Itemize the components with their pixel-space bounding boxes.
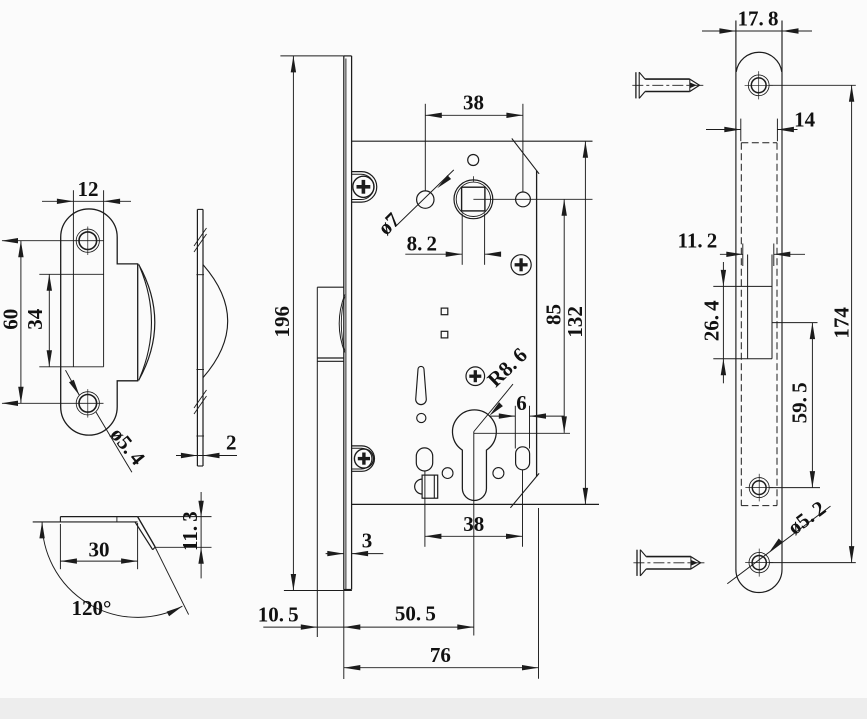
svg-text:38: 38 bbox=[463, 512, 484, 536]
side profile break marks lower bbox=[194, 396, 207, 414]
svg-text:38: 38 bbox=[463, 91, 484, 115]
dimension 11.2 ext left bbox=[742, 244, 744, 267]
faceplate boss top inner bbox=[352, 174, 374, 199]
strike plate cutout bottom edge bbox=[39, 366, 103, 368]
faceplate right edge bbox=[351, 56, 353, 590]
small circle left bbox=[442, 468, 453, 479]
dimension 76 ext right bbox=[538, 508, 540, 679]
lock case right edge bbox=[536, 171, 538, 477]
extension line through bottom hole bbox=[2, 402, 104, 404]
mounting screw bottom bbox=[636, 550, 638, 576]
strike plate latch bump outer arc bbox=[139, 264, 155, 380]
faceplate left edge bbox=[343, 56, 345, 590]
strike plate outline (left view) bbox=[61, 209, 138, 435]
strike plate cutout right edge + extension bbox=[103, 190, 105, 366]
dimension 10.5 and 50.5 line bbox=[263, 626, 474, 628]
recess dashed left bbox=[740, 143, 742, 506]
faceplate boss bottom outer bbox=[352, 446, 375, 471]
faceplate boss bottom inner bbox=[352, 448, 372, 469]
deadbolt top edge bbox=[317, 360, 344, 362]
strike box center extension bbox=[772, 322, 818, 324]
svg-text:11. 2: 11. 2 bbox=[678, 229, 718, 253]
dimension 14 ext left bbox=[740, 119, 742, 142]
svg-text:6: 6 bbox=[516, 391, 527, 415]
svg-text:85: 85 bbox=[542, 304, 566, 325]
dimension 11.2 line bbox=[720, 253, 743, 255]
strike plate cutout top edge bbox=[39, 273, 103, 275]
spindle center tick bbox=[472, 176, 474, 181]
hole right of spindle bbox=[516, 192, 531, 207]
lock case top chamfer bbox=[512, 138, 539, 173]
lip bar left cap bbox=[59, 517, 61, 522]
dimension 6 line bbox=[489, 415, 515, 417]
channel solid right bbox=[771, 255, 773, 359]
diameter 5.4 leader bbox=[66, 370, 80, 395]
lock case bottom edge + extension bbox=[352, 503, 599, 505]
dimension 196 ext top bbox=[280, 55, 343, 57]
mounting screw top bbox=[635, 72, 637, 98]
strike box top edge + extension bbox=[713, 285, 772, 287]
dimension 6 ext right bbox=[529, 406, 531, 449]
small circle below slot bbox=[417, 413, 426, 422]
dimension 59.5 line bbox=[811, 323, 813, 488]
lip flap extension line bbox=[155, 547, 188, 614]
svg-text:30: 30 bbox=[89, 537, 110, 561]
lip bar bottom edge + reference bbox=[33, 521, 138, 523]
dimension 11.3 line bbox=[200, 492, 202, 578]
svg-text:50. 5: 50. 5 bbox=[395, 602, 436, 626]
fixing slot right bbox=[516, 447, 530, 470]
dimension 38 bottom line bbox=[425, 535, 523, 537]
dimension 30 line bbox=[60, 560, 137, 562]
faceplate inner edge bbox=[345, 59, 347, 590]
side profile tick bottom bbox=[196, 435, 204, 437]
dimension 38 top ext left bbox=[424, 104, 426, 191]
svg-text:3: 3 bbox=[362, 529, 373, 553]
latch bolt top edge bbox=[317, 286, 344, 288]
svg-text:2: 2 bbox=[226, 430, 237, 454]
svg-text:60: 60 bbox=[0, 309, 23, 330]
svg-text:26. 4: 26. 4 bbox=[699, 300, 723, 341]
lock case bottom chamfer bbox=[510, 473, 539, 507]
latch bolt bottom edge bbox=[317, 357, 344, 359]
square hole lower bbox=[441, 331, 448, 338]
side profile bump arc bbox=[203, 265, 228, 378]
dimension 8.2 ext right bbox=[484, 214, 486, 265]
recess dashed right bbox=[776, 143, 778, 506]
side profile top cap bbox=[197, 208, 203, 210]
svg-text:11. 3: 11. 3 bbox=[178, 511, 202, 551]
svg-text:34: 34 bbox=[23, 308, 47, 330]
phillips screw upper-right bbox=[511, 255, 531, 275]
svg-text:59. 5: 59. 5 bbox=[787, 382, 811, 423]
svg-text:76: 76 bbox=[430, 643, 451, 667]
side profile tick lower bbox=[196, 369, 204, 371]
side profile break marks upper bbox=[194, 234, 207, 252]
dimension 30 extension left bbox=[59, 524, 61, 569]
extension line bottom hole to 174 bbox=[769, 562, 855, 564]
dimension 38 top ext right bbox=[522, 104, 524, 192]
lip flap inner edge bbox=[135, 522, 153, 550]
faceplate bottom cap bbox=[344, 589, 352, 591]
faceplate left extension down bbox=[343, 590, 345, 680]
radius 8.6 leader bbox=[474, 384, 513, 431]
faceplate boss bottom screw bbox=[354, 449, 373, 468]
side profile left edge bbox=[196, 209, 198, 466]
faceplate boss top outer bbox=[352, 172, 377, 203]
strike box bottom edge + extension bbox=[713, 358, 772, 360]
dimension 11.2 ext right bbox=[773, 244, 775, 267]
latch bevel outer arc bbox=[339, 295, 345, 353]
dimension 12 line bbox=[42, 200, 131, 202]
side profile right edge bbox=[202, 209, 204, 466]
lip flap end cap bbox=[153, 547, 156, 550]
hole diameter 7 bbox=[417, 191, 434, 208]
dimension 196 line bbox=[292, 56, 294, 591]
lock case top edge + extension bbox=[352, 140, 593, 142]
extension for 11.3 bottom bbox=[155, 546, 211, 548]
euro cylinder hole bbox=[453, 410, 497, 501]
long plate top arc bbox=[736, 52, 782, 72]
pilot circle top bbox=[468, 155, 479, 166]
phillips screw middle bbox=[466, 367, 485, 386]
lip bar inner tick bbox=[116, 517, 118, 522]
angle 120 arc bbox=[42, 522, 182, 617]
screw hole bottom (left view) bbox=[79, 395, 97, 413]
screw hole bottom (right view) bbox=[752, 556, 766, 570]
spindle square hole bbox=[462, 187, 485, 211]
screw hole middle (right view) bbox=[752, 481, 766, 495]
recess dashed bottom bbox=[741, 505, 777, 507]
small circle right bbox=[493, 468, 504, 479]
svg-text:10. 5: 10. 5 bbox=[258, 602, 299, 626]
dimension 174 line bbox=[851, 85, 853, 562]
dimension 38 bottom ext left bbox=[424, 471, 426, 547]
svg-text:12: 12 bbox=[78, 177, 99, 201]
svg-text:14: 14 bbox=[794, 108, 816, 132]
dimension 3 line bbox=[326, 553, 344, 555]
latch bolt face edge + extension bbox=[316, 287, 318, 637]
faceplate boss top screw bbox=[353, 176, 374, 197]
dimension 26.4 line bbox=[722, 262, 724, 383]
extension line top hole to 174 bbox=[769, 84, 856, 86]
background band at bottom bbox=[0, 698, 867, 719]
cylinder vertical center extension bbox=[473, 432, 475, 636]
clamp bracket bbox=[422, 475, 438, 498]
svg-text:8. 2: 8. 2 bbox=[407, 231, 437, 255]
strike plate cutout left edge + extension bbox=[72, 190, 74, 366]
dimension 17.8 line bbox=[702, 30, 812, 32]
screw hole top (left view) bbox=[79, 232, 97, 250]
svg-text:120°: 120° bbox=[72, 596, 112, 620]
side profile tick upper bbox=[196, 274, 204, 276]
dimension 2 line bbox=[176, 455, 237, 457]
dimension 14 line bbox=[706, 129, 741, 131]
long plate right edge + extension up bbox=[781, 21, 783, 570]
long plate bottom arc bbox=[736, 570, 782, 593]
dimension 6 ext left bbox=[514, 406, 516, 449]
long plate left edge + extension up bbox=[735, 21, 737, 570]
dimension 132 line bbox=[584, 141, 586, 504]
spindle hub inner circle bbox=[456, 182, 490, 216]
diameter 7 leader bbox=[395, 170, 453, 227]
svg-text:132: 132 bbox=[563, 306, 587, 338]
dimension 8.2 line bbox=[405, 253, 462, 255]
dimension 85 line bbox=[563, 199, 565, 433]
dimension 34 line bbox=[48, 274, 50, 367]
extension line middle hole to 59.5 bbox=[769, 487, 820, 489]
svg-text:196: 196 bbox=[270, 306, 294, 338]
lip flap outer edge bbox=[138, 517, 156, 547]
square hole upper bbox=[441, 308, 448, 315]
dimension 14 ext right bbox=[776, 119, 778, 142]
recess dashed top bbox=[741, 142, 777, 144]
faceplate top cap bbox=[344, 55, 352, 57]
tapered slot bbox=[416, 366, 427, 404]
side profile bottom cap bbox=[197, 465, 203, 467]
spindle center line right bbox=[473, 198, 592, 200]
extension line through top hole bbox=[2, 240, 104, 242]
lip bar top edge bbox=[60, 516, 137, 518]
dimension 38 bottom ext right bbox=[522, 470, 524, 547]
dimension 8.2 ext left bbox=[461, 214, 463, 265]
dimension 38 top line bbox=[425, 114, 523, 116]
diameter 5.2 leader bbox=[727, 506, 830, 584]
svg-text:17. 8: 17. 8 bbox=[738, 7, 779, 31]
extension for 11.3 top bbox=[138, 516, 212, 518]
dimension 30 extension right bbox=[137, 523, 139, 569]
dimension 76 line bbox=[344, 667, 539, 669]
channel solid left bbox=[747, 255, 749, 359]
spindle hub outer circle bbox=[454, 180, 493, 219]
fixing slot left bbox=[416, 448, 432, 471]
strike plate latch bump inner arc bbox=[140, 267, 152, 378]
svg-text:174: 174 bbox=[830, 307, 854, 339]
cylinder horizontal extension bbox=[474, 432, 570, 434]
latch bevel inner arc bbox=[341, 297, 345, 351]
dimension 60 line bbox=[20, 241, 22, 404]
dimension 196 ext bottom bbox=[284, 590, 352, 592]
screw hole top (right view) bbox=[751, 78, 766, 93]
